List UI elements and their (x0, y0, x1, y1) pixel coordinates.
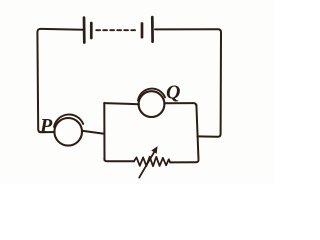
label P (meter P designator) (39, 115, 53, 137)
label Q (meter Q designator) (166, 81, 180, 103)
battery B1 left cell short plate (90, 23, 93, 38)
wire: top branch left segment (node A to meter Q) (104, 103, 139, 104)
meter Q circle (139, 91, 165, 117)
battery B1 right cell long plate (151, 17, 154, 42)
wire: node B connector stub (already drawn with right loop) junction at right vertical (197, 135, 199, 137)
meter P circle (54, 118, 82, 146)
rheostat R1 arrow shaft (139, 152, 154, 178)
meter P outer top arc (hand-drawn overlap) (54, 114, 83, 127)
wire: left loop (battery left plate to top-left corner, down left side, to meter P) (37, 29, 84, 132)
wire: meter P to node A (left junction of parallel branch) (82, 131, 104, 134)
meter Q outer top arc (hand-drawn overlap) (138, 89, 165, 101)
battery B1 right cell short plate (141, 24, 144, 38)
wire: top branch right segment (meter Q to right vertical) (164, 103, 196, 106)
svg-text:P: P (39, 115, 53, 137)
wire: parallel branch left vertical (node A) (103, 103, 105, 160)
battery B1 left cell long plate (83, 18, 86, 43)
svg-text:Q: Q (166, 81, 180, 103)
rheostat R1 zigzag element (134, 157, 170, 167)
wire: parallel branch right vertical (170, 105, 198, 162)
rheostat R1 arrowhead (151, 146, 157, 154)
battery B1 dashed line (additional cells) (96, 29, 136, 31)
wire: bottom branch left segment (node A to rheostat) (104, 159, 134, 162)
wire: right loop (battery right plate to top-right corner, down right side, to node B) (155, 29, 221, 137)
